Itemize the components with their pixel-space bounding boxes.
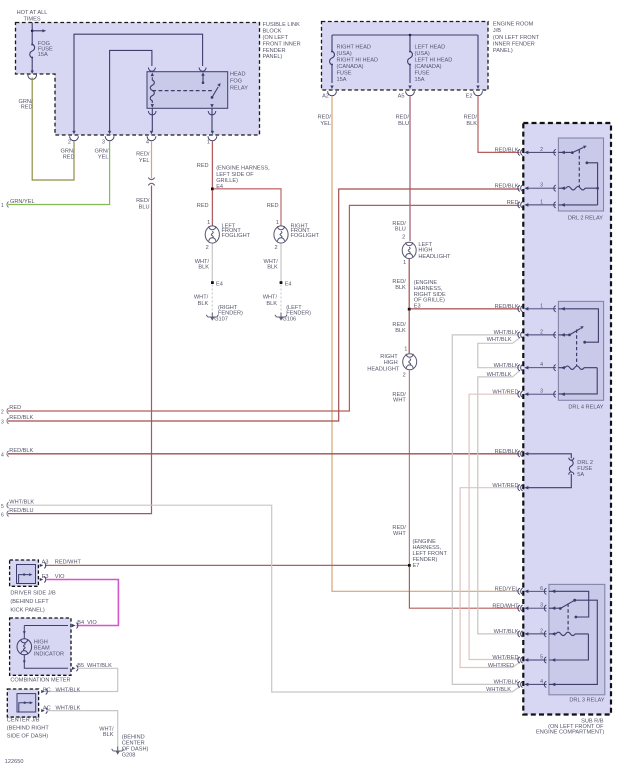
svg-text:FENDER: FENDER: [263, 48, 286, 54]
connector BC center J/B: [41, 689, 47, 695]
svg-text:WHT/: WHT/: [263, 295, 278, 301]
connector arcs at head fog relay top pins: [148, 68, 215, 115]
svg-text:RED: RED: [197, 163, 209, 169]
svg-text:(BEHIND LEFT: (BEHIND LEFT: [10, 599, 49, 605]
svg-text:B4: B4: [77, 620, 84, 626]
svg-text:HIGH: HIGH: [34, 639, 48, 645]
node bus junction at fuse top: [31, 29, 46, 32]
svg-text:1: 1: [540, 199, 543, 205]
wire relay switch bottom to block pin 1: [211, 108, 213, 131]
fog fuse F1 15A: [30, 23, 35, 73]
relay DRL 2 internals: [558, 146, 598, 205]
svg-text:TIMES: TIMES: [23, 17, 40, 23]
connectors at DRL3 rows: [518, 588, 555, 687]
svg-text:YEL: YEL: [98, 155, 109, 161]
wire WHT/BLK from B5 to center J/B BC: [46, 668, 118, 691]
wire RED/YEL from A2 to DRL3 relay pin 6: [332, 97, 520, 592]
svg-text:E3: E3: [42, 574, 49, 580]
svg-text:RED: RED: [267, 203, 279, 209]
wire WHT/BLK left foglight to node E4 ground side: [211, 244, 213, 282]
svg-text:BLK: BLK: [267, 265, 278, 271]
svg-text:2: 2: [206, 245, 209, 251]
svg-text:WHT/BLK: WHT/BLK: [487, 337, 512, 343]
svg-text:RED/BLK: RED/BLK: [495, 449, 519, 455]
svg-text:RED/BLK: RED/BLK: [9, 415, 33, 421]
pin2 row switch: [558, 334, 569, 336]
relay DRL 3 relay box: [549, 584, 605, 694]
svg-text:GRILLE): GRILLE): [216, 178, 238, 184]
svg-text:KICK PANEL): KICK PANEL): [10, 607, 45, 613]
svg-text:E4: E4: [216, 184, 223, 190]
lamp right front foglight: [274, 226, 288, 243]
wire RED/WHT right high headlight to node E7: [408, 370, 410, 565]
svg-text:RED/WHT: RED/WHT: [55, 559, 82, 565]
svg-text:WHT/BLK: WHT/BLK: [487, 372, 512, 378]
svg-text:(ON LEFT FRONT: (ON LEFT FRONT: [493, 35, 540, 41]
svg-text:BLK: BLK: [198, 265, 209, 271]
svg-text:BLK: BLK: [466, 121, 477, 127]
ground G208 behind center of dash: [112, 747, 124, 755]
wire inside block: pin3 to relay coil top: [110, 50, 152, 131]
svg-text:FUSIBLE LINK: FUSIBLE LINK: [263, 22, 301, 28]
svg-text:3: 3: [540, 389, 543, 395]
svg-text:PANEL): PANEL): [493, 48, 513, 54]
connector omega symbols at fusible link bottom pins 2 3 4 1: [70, 131, 217, 141]
driver side J/B block: [10, 560, 39, 586]
mech link dashed: [578, 150, 580, 187]
svg-text:2: 2: [68, 139, 71, 145]
svg-text:4: 4: [1, 453, 4, 459]
svg-text:PANEL): PANEL): [263, 54, 283, 60]
svg-text:3: 3: [1, 420, 4, 426]
svg-text:1: 1: [403, 260, 406, 266]
svg-text:A2: A2: [322, 94, 329, 100]
svg-text:3: 3: [540, 603, 543, 609]
svg-text:E2: E2: [466, 94, 473, 100]
svg-text:RED/BLK: RED/BLK: [495, 304, 519, 310]
wire WHT/BLK DRL4 pin2 to DRL3 pin4 (long vertical): [452, 335, 519, 685]
fusible link block (ON LEFT FRONT INNER FENDER PANEL): [16, 23, 260, 136]
svg-text:VIO: VIO: [55, 574, 65, 580]
wire RED/WHT from driver side J/B A3 to node E7: [45, 564, 408, 566]
connector AC center J/B: [41, 708, 47, 714]
svg-text:3: 3: [102, 139, 105, 145]
driver side J/B internals: [19, 573, 33, 583]
wire WHT/RED DRL4 pin3 to DRL3 pin5: [469, 394, 519, 659]
connector arcs at left edge pins: [7, 202, 9, 517]
svg-text:FUSE: FUSE: [577, 466, 592, 472]
svg-text:DRL 2 RELAY: DRL 2 RELAY: [568, 215, 603, 221]
wire RED from E4 to left front foglight: [211, 190, 213, 226]
svg-text:J/B: J/B: [493, 28, 501, 34]
svg-text:WHT/BLK: WHT/BLK: [494, 629, 519, 635]
svg-text:BLK: BLK: [198, 301, 209, 307]
svg-text:RED/BLK: RED/BLK: [9, 448, 33, 454]
svg-text:4: 4: [540, 679, 543, 685]
svg-text:5A: 5A: [577, 472, 584, 478]
svg-text:RED/BLU: RED/BLU: [9, 508, 33, 514]
svg-text:INNER FENDER: INNER FENDER: [493, 41, 535, 47]
svg-text:2: 2: [402, 235, 405, 241]
wire E2 inside J/B: [476, 35, 479, 89]
svg-text:(ENGINE HARNESS,: (ENGINE HARNESS,: [216, 166, 270, 172]
engine room J/B internal bus: [332, 34, 478, 37]
wire VIO from E3 to combination meter B4: [46, 580, 118, 626]
relay U1 internals: switch blade and contact stub: [201, 72, 220, 108]
wire WHT/BLK right foglight to node E4: [280, 244, 282, 282]
svg-text:(ON LEFT: (ON LEFT: [263, 35, 289, 41]
wire RED/BLK left edge pin 4 to DRL2 fuse: [8, 453, 520, 455]
svg-text:6: 6: [540, 586, 543, 592]
relay U1 internals: mech link dashed: [152, 90, 212, 92]
svg-text:15A: 15A: [337, 77, 347, 83]
svg-text:2: 2: [274, 245, 277, 251]
svg-text:LEFT HI HEAD: LEFT HI HEAD: [415, 57, 453, 63]
svg-text:WHT/BLK: WHT/BLK: [494, 680, 519, 686]
connector E3 driver side J/B: [40, 577, 46, 583]
svg-text:HEAD: HEAD: [230, 71, 246, 77]
connector omegas A2 A5 E2: [328, 91, 483, 96]
svg-text:YEL: YEL: [139, 158, 150, 164]
connector pin 2 of fusible link (fuse output): [28, 71, 37, 80]
connector A3 driver side J/B: [40, 562, 46, 568]
svg-text:2: 2: [1, 410, 4, 416]
text labels bottom left: [5, 559, 149, 765]
svg-text:BLK: BLK: [266, 301, 277, 307]
svg-text:HIGH: HIGH: [384, 360, 398, 366]
svg-text:(CANADA): (CANADA): [415, 64, 442, 70]
lamp right high headlight: [403, 354, 417, 370]
wire RED/BLK branch from E3 to DRL4 relay pin 1: [411, 308, 520, 310]
fuse right head (USA) 15A: [330, 35, 335, 89]
svg-text:RED/: RED/: [392, 525, 406, 531]
svg-text:WHT/: WHT/: [194, 295, 209, 301]
svg-text:3: 3: [540, 183, 543, 189]
svg-text:RED/: RED/: [136, 198, 150, 204]
wire RED/BLK left high headlight to node E3: [408, 259, 410, 309]
coil pin3 row: [558, 187, 566, 189]
svg-text:WHT: WHT: [393, 531, 406, 537]
svg-text:15A: 15A: [415, 77, 425, 83]
svg-text:WHT/RED: WHT/RED: [492, 389, 518, 395]
contact to pin1: [586, 161, 589, 164]
svg-text:B5: B5: [77, 663, 84, 669]
relay DRL 4 internals: [558, 309, 598, 394]
mech link dashed: [576, 330, 578, 367]
text labels sub R/B rows: [486, 148, 519, 694]
svg-text:RED: RED: [9, 405, 21, 411]
svg-text:15A: 15A: [38, 52, 48, 58]
svg-text:RED/WHT: RED/WHT: [492, 603, 519, 609]
svg-text:A3: A3: [42, 559, 49, 565]
svg-text:CENTER J/B: CENTER J/B: [7, 718, 40, 724]
pin6 row to lower contact: [549, 591, 589, 617]
fuse DRL 2 FUSE 5A: [524, 452, 574, 490]
svg-text:RIGHT HI HEAD: RIGHT HI HEAD: [337, 57, 379, 63]
svg-text:(BEHIND RIGHT: (BEHIND RIGHT: [7, 725, 50, 731]
wire GRN/RED from fuse to block pin 2: [32, 78, 74, 181]
svg-text:A5: A5: [398, 94, 405, 100]
svg-text:RIGHT HEAD: RIGHT HEAD: [337, 44, 371, 50]
wire WHT/BLK jumper DRL4 pin2 to pin4: [478, 337, 521, 367]
svg-text:RED: RED: [507, 200, 519, 206]
svg-text:E4: E4: [285, 282, 292, 288]
wire RED/BLU from lens down and to left edge pin 6: [8, 186, 152, 514]
node E3 engine harness right side of grille: [408, 308, 411, 311]
svg-text:1: 1: [276, 220, 279, 226]
pin1 row: [558, 204, 597, 206]
text labels top left: [1, 10, 320, 322]
svg-text:122650: 122650: [5, 759, 24, 765]
svg-text:BLK: BLK: [395, 328, 406, 334]
svg-text:YEL: YEL: [320, 121, 331, 127]
svg-text:1: 1: [207, 220, 210, 226]
text pin numbers sub R/B: [540, 147, 543, 685]
relay U1 head fog relay box: [147, 72, 228, 109]
text relay and fuse names sub R/B: [536, 215, 605, 735]
wire RED left edge pin 2 to DRL2 relay pin 1: [8, 205, 520, 411]
svg-text:WHT/BLK: WHT/BLK: [9, 499, 34, 505]
pin3 row switch: [549, 607, 560, 609]
pin1 row to contact: [558, 309, 598, 342]
svg-text:FUSE: FUSE: [337, 70, 352, 76]
text labels headlights column: [367, 221, 451, 569]
svg-text:HEADLIGHT: HEADLIGHT: [418, 254, 451, 260]
wire WHT/BLK DRL4 pin4 to DRL3 pin2: [478, 370, 521, 634]
node E4 engine harness left side of grille: [211, 188, 214, 191]
wire pin2 row: [558, 151, 572, 153]
svg-text:RED/: RED/: [464, 114, 478, 120]
svg-text:RELAY: RELAY: [230, 85, 248, 91]
svg-text:FOGLIGHT: FOGLIGHT: [291, 233, 320, 239]
svg-text:E4: E4: [216, 282, 223, 288]
svg-text:WHT/BLK: WHT/BLK: [87, 663, 112, 669]
svg-text:DRL 2: DRL 2: [577, 460, 593, 466]
lamp high beam indicator: [17, 626, 68, 669]
svg-text:FOGLIGHT: FOGLIGHT: [222, 233, 251, 239]
node E7 engine harness left front fender: [408, 564, 411, 567]
svg-text:1: 1: [207, 139, 210, 145]
svg-text:BLU: BLU: [395, 227, 406, 233]
svg-text:BLOCK: BLOCK: [263, 29, 282, 35]
svg-text:DRL 3 RELAY: DRL 3 RELAY: [569, 698, 604, 704]
svg-text:RED/YEL: RED/YEL: [495, 587, 519, 593]
svg-text:HOT AT ALL: HOT AT ALL: [17, 10, 48, 16]
svg-text:FENDER): FENDER): [218, 310, 243, 316]
svg-text:RIGHT: RIGHT: [380, 354, 398, 360]
svg-text:WHT/BLK: WHT/BLK: [494, 363, 519, 369]
svg-text:VIO: VIO: [87, 620, 97, 626]
svg-text:E3: E3: [414, 303, 421, 309]
svg-text:WHT/BLK: WHT/BLK: [494, 330, 519, 336]
text labels left edge rows: [1, 405, 34, 518]
node E4 right: [280, 281, 283, 284]
wire WHT/BLK left edge pin 5 to DRL3 relay pin 4: [8, 505, 520, 692]
svg-text:GRN/YEL: GRN/YEL: [10, 199, 35, 205]
svg-text:GRN/: GRN/: [95, 148, 109, 154]
svg-text:RED/: RED/: [136, 152, 150, 158]
svg-text:2: 2: [540, 147, 543, 153]
svg-text:WHT/BLK: WHT/BLK: [486, 687, 511, 693]
svg-text:4: 4: [146, 139, 149, 145]
wire RED/BLU from A5 to left high headlight: [409, 97, 411, 242]
svg-text:WHT: WHT: [393, 398, 406, 404]
wire RED/YEL from block pin 4: [151, 141, 153, 178]
coil pin4 row: [558, 367, 565, 369]
wire RED/BLK from E2 to DRL2 relay pin 2: [478, 97, 520, 153]
svg-text:6: 6: [1, 513, 4, 519]
relay DRL 3 internals: [549, 591, 597, 684]
text labels engine room J/B: [318, 22, 540, 127]
svg-text:FRONT INNER: FRONT INNER: [263, 41, 301, 47]
wire inside block: pin2 to relay switch top: [74, 34, 203, 131]
relay DRL 2 relay box: [558, 138, 603, 211]
wire WHT/BLK dashed to ground G107: [211, 285, 213, 316]
svg-text:2: 2: [403, 373, 406, 379]
svg-text:(USA): (USA): [415, 51, 430, 57]
svg-text:BLK: BLK: [395, 285, 406, 291]
svg-text:FOG: FOG: [230, 78, 242, 84]
fuse left head (USA) 15A: [408, 35, 413, 89]
svg-text:DRL 4 RELAY: DRL 4 RELAY: [568, 405, 603, 411]
svg-text:(USA): (USA): [337, 51, 352, 57]
wire RED/BLK from E3 to right high headlight: [408, 311, 410, 353]
svg-text:SIDE OF DASH): SIDE OF DASH): [7, 733, 48, 739]
relay DRL 4 relay box: [558, 301, 603, 400]
combination meter block: [10, 618, 71, 675]
svg-text:BLU: BLU: [398, 121, 409, 127]
svg-text:HIGH: HIGH: [418, 248, 432, 254]
svg-text:WHT/BLK: WHT/BLK: [56, 687, 81, 693]
svg-text:ENGINE ROOM: ENGINE ROOM: [493, 22, 534, 28]
wire relay coil bottom to block pin 4: [151, 108, 153, 131]
wire RED/BLK left edge pin 3 to DRL2 relay pin 3: [8, 189, 520, 421]
coil pin2 row: [549, 633, 556, 635]
svg-text:G106: G106: [282, 316, 296, 322]
svg-text:1: 1: [540, 303, 543, 309]
svg-text:INDICATOR: INDICATOR: [34, 652, 64, 658]
svg-text:RED/BLK: RED/BLK: [495, 183, 519, 189]
svg-text:G107: G107: [214, 316, 228, 322]
svg-text:COMBINATION METER: COMBINATION METER: [10, 678, 70, 684]
connectors at DRL2 fuse rows: [518, 451, 523, 491]
mech link dashed: [567, 604, 569, 632]
svg-text:1: 1: [404, 346, 407, 352]
svg-text:AC: AC: [43, 706, 51, 712]
lamp left high headlight: [402, 242, 416, 258]
svg-text:5: 5: [540, 655, 543, 661]
node E4 left: [211, 281, 214, 284]
engine room J/B block: [322, 22, 489, 91]
wire WHT/BLK dashed to ground G106: [280, 285, 282, 316]
svg-text:LEFT SIDE OF: LEFT SIDE OF: [216, 172, 254, 178]
svg-text:1: 1: [1, 203, 4, 209]
sub R/B block (ON LEFT FRONT OF ENGINE COMPARTMENT): [523, 123, 611, 715]
svg-text:GRN/: GRN/: [61, 148, 75, 154]
connector B4 combination meter: [72, 623, 78, 629]
svg-text:2: 2: [540, 329, 543, 335]
wire RED/WHT from E7 to DRL3 relay pin 3: [409, 567, 519, 608]
svg-text:(CANADA): (CANADA): [337, 64, 364, 70]
svg-text:RED/BLK: RED/BLK: [495, 148, 519, 154]
svg-text:FENDER): FENDER): [286, 310, 311, 316]
lamp left front foglight: [205, 226, 219, 243]
svg-text:WHT/RED: WHT/RED: [488, 663, 514, 669]
svg-text:WHT/RED: WHT/RED: [492, 483, 518, 489]
wire WHT/RED DRL2 fuse output to DRL3 pin5: [460, 488, 520, 668]
svg-text:BEAM: BEAM: [34, 646, 50, 652]
svg-text:WHT/RED: WHT/RED: [492, 655, 518, 661]
ground G106 left fender: [275, 313, 287, 321]
svg-text:DRIVER SIDE J/B: DRIVER SIDE J/B: [10, 591, 56, 597]
svg-text:ENGINE COMPARTMENT): ENGINE COMPARTMENT): [536, 729, 604, 735]
wire WHT/BLK from AC to ground G208: [47, 711, 118, 750]
svg-text:RED/: RED/: [396, 114, 410, 120]
connector B5 combination meter: [72, 665, 78, 671]
connectors at DRL4 rows: [518, 306, 565, 398]
upper contact to pin4: [549, 600, 597, 684]
connectors at DRL2 rows: [518, 149, 565, 208]
svg-text:LEFT HEAD: LEFT HEAD: [415, 44, 446, 50]
svg-text:BLK: BLK: [103, 732, 114, 738]
svg-text:BLU: BLU: [139, 204, 150, 210]
svg-text:RED: RED: [63, 155, 75, 161]
svg-text:2: 2: [540, 628, 543, 634]
svg-text:5: 5: [1, 504, 4, 510]
svg-text:RED: RED: [21, 105, 33, 111]
connector lens on pin4 wire: [148, 178, 154, 186]
svg-text:BC: BC: [43, 687, 51, 693]
svg-text:FUSE: FUSE: [415, 70, 430, 76]
center J/B internals: [19, 701, 33, 712]
svg-text:G208: G208: [122, 753, 136, 759]
wire RED branch from E4 to right front foglight: [214, 189, 282, 226]
svg-text:WHT/BLK: WHT/BLK: [56, 706, 81, 712]
svg-text:HEADLIGHT: HEADLIGHT: [367, 366, 400, 372]
svg-text:RED/: RED/: [318, 114, 332, 120]
svg-text:RED: RED: [197, 203, 209, 209]
svg-text:E7: E7: [413, 563, 420, 569]
center J/B block: [7, 689, 38, 717]
wire GRN/YEL from block pin 3 to left edge pin 1: [8, 141, 110, 204]
wire RED from block pin 1 to node E4: [211, 141, 213, 189]
svg-text:4: 4: [540, 362, 543, 368]
relay U1 internals: coil: [150, 73, 154, 108]
ground G107 right fender: [206, 313, 218, 321]
